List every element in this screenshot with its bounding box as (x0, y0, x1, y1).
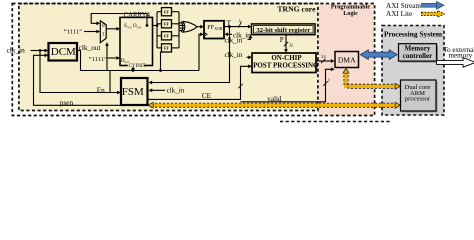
blue AXI stream arrow DMA-MC (360, 50, 397, 60)
block ON-CHIP POST PROCESSING (252, 53, 319, 73)
wire 1111 to mux (84, 30, 100, 34)
wire clock arrow into FF_XOR (200, 32, 204, 36)
Programmable Logic pink area (319, 4, 375, 116)
wire psen FSM to DCM (34, 53, 122, 105)
stray dashed line bottom (280, 121, 391, 123)
wire XOR to FF_XOR (197, 25, 204, 29)
label To external memory (443, 46, 474, 60)
flip-flop FF_XOR (204, 21, 224, 39)
yellow AXI lite bus DMA-ARM (343, 68, 400, 89)
svg-text:clk_in: clk_in (225, 51, 243, 59)
flip-flop FF1 (162, 8, 172, 16)
Processing System region (382, 26, 444, 116)
svg-text:FF: FF (164, 22, 170, 27)
label clk_in FF_XOR (224, 31, 251, 39)
wire FF clock riser (159, 52, 162, 72)
svg-text:1: 1 (239, 18, 241, 23)
wire valid to DMA (241, 67, 335, 101)
svg-text:“1111”: “1111” (64, 29, 82, 36)
wire clk_out distribution (77, 51, 199, 71)
wire 1111 to D3-0 (108, 56, 120, 60)
svg-text:FSM: FSM (122, 86, 144, 98)
svg-text:clk_in: clk_in (167, 86, 185, 94)
wire feedback to mux input 0 (91, 14, 147, 26)
wire P to post processing (284, 35, 293, 53)
block DCM (49, 43, 78, 61)
wire T feedback to FSM (149, 27, 230, 85)
FF output bus (172, 12, 185, 48)
svg-text:POST PROCESSING: POST PROCESSING (253, 62, 319, 70)
svg-text:“1111”: “1111” (89, 56, 107, 63)
svg-text:valid: valid (267, 95, 282, 103)
block DMA (335, 52, 359, 68)
label clk_in FSM (149, 86, 185, 94)
svg-text:Logic: Logic (343, 11, 358, 17)
svg-text:TRNG core: TRNG core (277, 4, 316, 13)
svg-text:clk_in: clk_in (7, 46, 26, 55)
svg-text:clk_out: clk_out (79, 43, 101, 52)
svg-text:controller: controller (403, 52, 432, 60)
block Dual core ARM processor (401, 80, 438, 113)
wire feedback tap inside CARRY4 (146, 18, 149, 27)
legend AXI Lite (386, 10, 445, 18)
svg-text:P: P (280, 36, 284, 44)
svg-text:1: 1 (328, 78, 330, 83)
block CARRY4 (120, 12, 153, 69)
svg-text:CE: CE (202, 92, 212, 100)
mux (100, 21, 106, 43)
wire CYINIT riser (131, 66, 135, 72)
svg-text:Processing System: Processing System (384, 30, 443, 39)
Programmable Logic region dashed border (12, 4, 374, 116)
svg-text:DCM: DCM (51, 46, 76, 58)
svg-text:memory: memory (449, 52, 473, 60)
block 32-bit shift register (252, 24, 316, 35)
svg-text:32: 32 (321, 54, 325, 59)
svg-text:psen: psen (60, 98, 74, 107)
label Programmable Logic (331, 5, 370, 18)
svg-text:En: En (97, 87, 105, 95)
wire FF_XOR clock riser (199, 34, 201, 70)
TRNG core beige area (19, 4, 318, 111)
wire data 32 to DMA (316, 54, 335, 63)
label clk_in shift register (225, 35, 253, 45)
svg-text:FF: FF (164, 9, 170, 14)
flip-flop FF4 (162, 44, 172, 52)
svg-text:32: 32 (289, 43, 293, 48)
TRNG core region dashed border (19, 4, 318, 111)
legend AXI Stream (386, 1, 444, 10)
XOR gate (181, 21, 197, 32)
svg-text:FF: FF (164, 34, 170, 39)
svg-text:processor: processor (405, 96, 431, 103)
svg-text:32-bit shift register: 32-bit shift register (256, 27, 310, 34)
arrow to external memory (437, 58, 474, 68)
svg-text:DMA: DMA (338, 55, 356, 64)
svg-text:FF: FF (164, 46, 170, 51)
wire CE from FSM (148, 64, 252, 99)
svg-text:clk_in: clk_in (225, 37, 243, 45)
svg-text:CYINIT: CYINIT (129, 64, 146, 69)
wire mux to CARRY4 S input (106, 27, 120, 31)
wire T to shift register (224, 18, 252, 29)
yellow AXI lite bus FSM-ARM (148, 102, 401, 108)
svg-text:Programmable: Programmable (331, 5, 370, 11)
block Memory controller (399, 44, 439, 63)
svg-text:AXI Lite: AXI Lite (386, 10, 412, 18)
svg-text:0: 0 (102, 23, 105, 29)
flip-flop FF3 (162, 32, 172, 40)
wire clk_in into DCM (31, 49, 49, 53)
flip-flop FF2 (162, 20, 172, 28)
block FSM (121, 78, 148, 105)
wire CARRY4 output (153, 24, 159, 27)
wire En riser (109, 71, 111, 93)
FF input bus (157, 12, 162, 48)
label clk_in post processing (225, 51, 252, 59)
svg-text:1: 1 (102, 32, 105, 38)
wire clk_in to FSM (40, 51, 121, 95)
wire mux select riser (105, 42, 109, 70)
